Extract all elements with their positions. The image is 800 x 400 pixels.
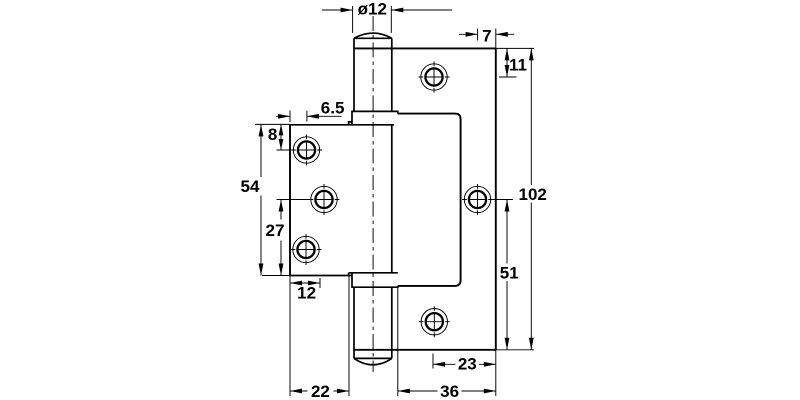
svg-text:7: 7 (482, 26, 491, 45)
dimension 102 (519, 48, 547, 349)
dimension 27 (266, 200, 309, 276)
dimension 7 (459, 26, 514, 48)
hole R3 (419, 306, 450, 337)
folded leaf outline (392, 114, 461, 286)
dimension 23 (433, 354, 496, 374)
right leaf plate (354, 48, 496, 349)
hole L3 (291, 234, 322, 265)
svg-text:8: 8 (268, 125, 277, 144)
svg-text:22: 22 (311, 382, 330, 400)
svg-text:ø12: ø12 (358, 0, 387, 19)
pin center line (372, 16, 374, 372)
bottom knuckle (349, 273, 398, 287)
top knuckle (349, 111, 398, 124)
dimension 54 (241, 124, 290, 275)
svg-text:11: 11 (509, 55, 527, 74)
svg-text:36: 36 (440, 382, 459, 400)
left leaf plate (290, 125, 394, 276)
svg-text:12: 12 (297, 284, 316, 303)
dimension 22 (290, 273, 349, 400)
svg-text:27: 27 (266, 221, 285, 240)
pin barrel top section (354, 33, 392, 111)
hole L1 (291, 135, 322, 166)
dimension 12 (290, 278, 320, 303)
dimension 6.5 (276, 99, 344, 122)
dimension 36 (398, 287, 534, 400)
svg-text:6.5: 6.5 (321, 99, 345, 118)
hole R1 (419, 62, 450, 93)
svg-text:102: 102 (519, 185, 547, 204)
dimension 51 (489, 200, 519, 350)
pin barrel bottom section (354, 287, 392, 365)
svg-text:54: 54 (241, 177, 260, 196)
hole L2 (309, 184, 340, 215)
svg-text:23: 23 (458, 355, 477, 374)
dimension 8 (255, 124, 291, 150)
dimension 11 (496, 48, 534, 77)
hole R2 (462, 184, 493, 215)
dimension ø12 (322, 0, 452, 33)
svg-text:51: 51 (500, 263, 519, 282)
